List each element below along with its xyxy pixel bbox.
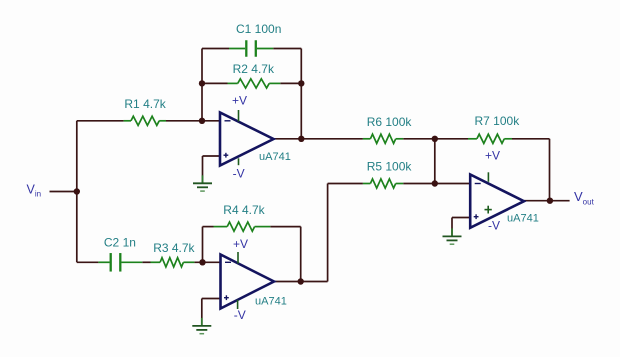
node U1 output (298, 136, 304, 142)
op-amp U3 (470, 175, 539, 228)
resistor R7 (468, 134, 512, 143)
wire R6-R7 mid (403, 138, 468, 140)
svg-text:C1 100n: C1 100n (236, 22, 281, 36)
wire R5 left column (301, 184, 328, 282)
wire R4 left column (202, 227, 204, 263)
svg-text:R4 4.7k: R4 4.7k (223, 203, 265, 217)
op-amp U2 (221, 255, 287, 309)
svg-text:C2 1n: C2 1n (104, 236, 136, 250)
wire U1 feedback left column (201, 49, 203, 121)
resistor R2 (228, 79, 281, 88)
svg-text:Vout: Vout (574, 189, 595, 206)
svg-text:R6 100k: R6 100k (367, 115, 413, 129)
resistor R3 (151, 258, 195, 267)
node U3 inverting input (432, 180, 438, 186)
node R6-R7 junction (432, 136, 438, 142)
svg-text:Vin: Vin (27, 182, 42, 198)
wire junction column R6-R5 (434, 139, 436, 184)
node U2 output (298, 278, 304, 284)
wire R4 feedback row (203, 226, 301, 228)
wire R2 feedback row (202, 82, 301, 84)
wire U1 feedback right column (300, 49, 302, 139)
node R2 left tap (199, 80, 205, 86)
svg-text:uA741: uA741 (507, 213, 539, 225)
svg-text:-V: -V (234, 308, 246, 322)
wire U2 plus input (202, 299, 221, 326)
ground G2 (U2 + input) (192, 318, 211, 334)
wire R4 right column (300, 227, 302, 282)
wire R7 right column (512, 139, 550, 201)
svg-text:-V: -V (488, 219, 500, 233)
node U2 inverting input (199, 259, 205, 265)
resistor R1 (124, 116, 166, 125)
U3 -V pin cross (485, 206, 492, 214)
U3 +V pin stub (487, 172, 489, 182)
capacitor C1 (229, 40, 273, 57)
wire R5 row (328, 183, 471, 185)
ground G1 (U1 + input) (193, 175, 212, 191)
svg-text:R5 100k: R5 100k (367, 160, 413, 174)
wire C2-R3 row (77, 261, 221, 263)
wire U1 output row (274, 138, 363, 140)
svg-text:uA741: uA741 (259, 151, 291, 163)
U1 -V pin stub (238, 158, 240, 165)
node Vin junction (74, 188, 80, 194)
wire C1 feedback top row (202, 48, 301, 50)
svg-text:-V: -V (233, 167, 245, 181)
U2 -V pin stub (237, 300, 239, 309)
svg-text:uA741: uA741 (255, 296, 287, 308)
node U3 output / feedback (547, 198, 553, 204)
svg-text:R1 4.7k: R1 4.7k (124, 97, 166, 111)
ground G3 (U3 + input) (443, 228, 462, 244)
wire input column (76, 121, 78, 262)
svg-text:R7 100k: R7 100k (475, 114, 521, 128)
wire U3 plus input (452, 218, 470, 237)
svg-text:+V: +V (232, 94, 247, 108)
capacitor C2 (98, 253, 142, 271)
U2 +V pin stub (237, 252, 239, 264)
wire U3 output (524, 200, 570, 202)
node R2 right tap (298, 80, 304, 86)
node U1 inverting input (199, 118, 205, 124)
svg-text:R2 4.7k: R2 4.7k (233, 62, 275, 76)
resistor R5 (363, 179, 403, 188)
U1 +V pin stub (238, 110, 240, 122)
resistor R4 (214, 222, 271, 231)
wire Vin lead (50, 191, 77, 193)
wire R1 row (77, 120, 220, 122)
svg-text:+V: +V (485, 149, 500, 163)
resistor R6 (363, 134, 403, 143)
wire U2 output row (274, 281, 301, 283)
svg-text:+V: +V (233, 237, 248, 251)
wire U1 plus input (203, 156, 221, 183)
op-amp U1 (220, 113, 291, 166)
svg-text:R3 4.7k: R3 4.7k (153, 241, 195, 255)
